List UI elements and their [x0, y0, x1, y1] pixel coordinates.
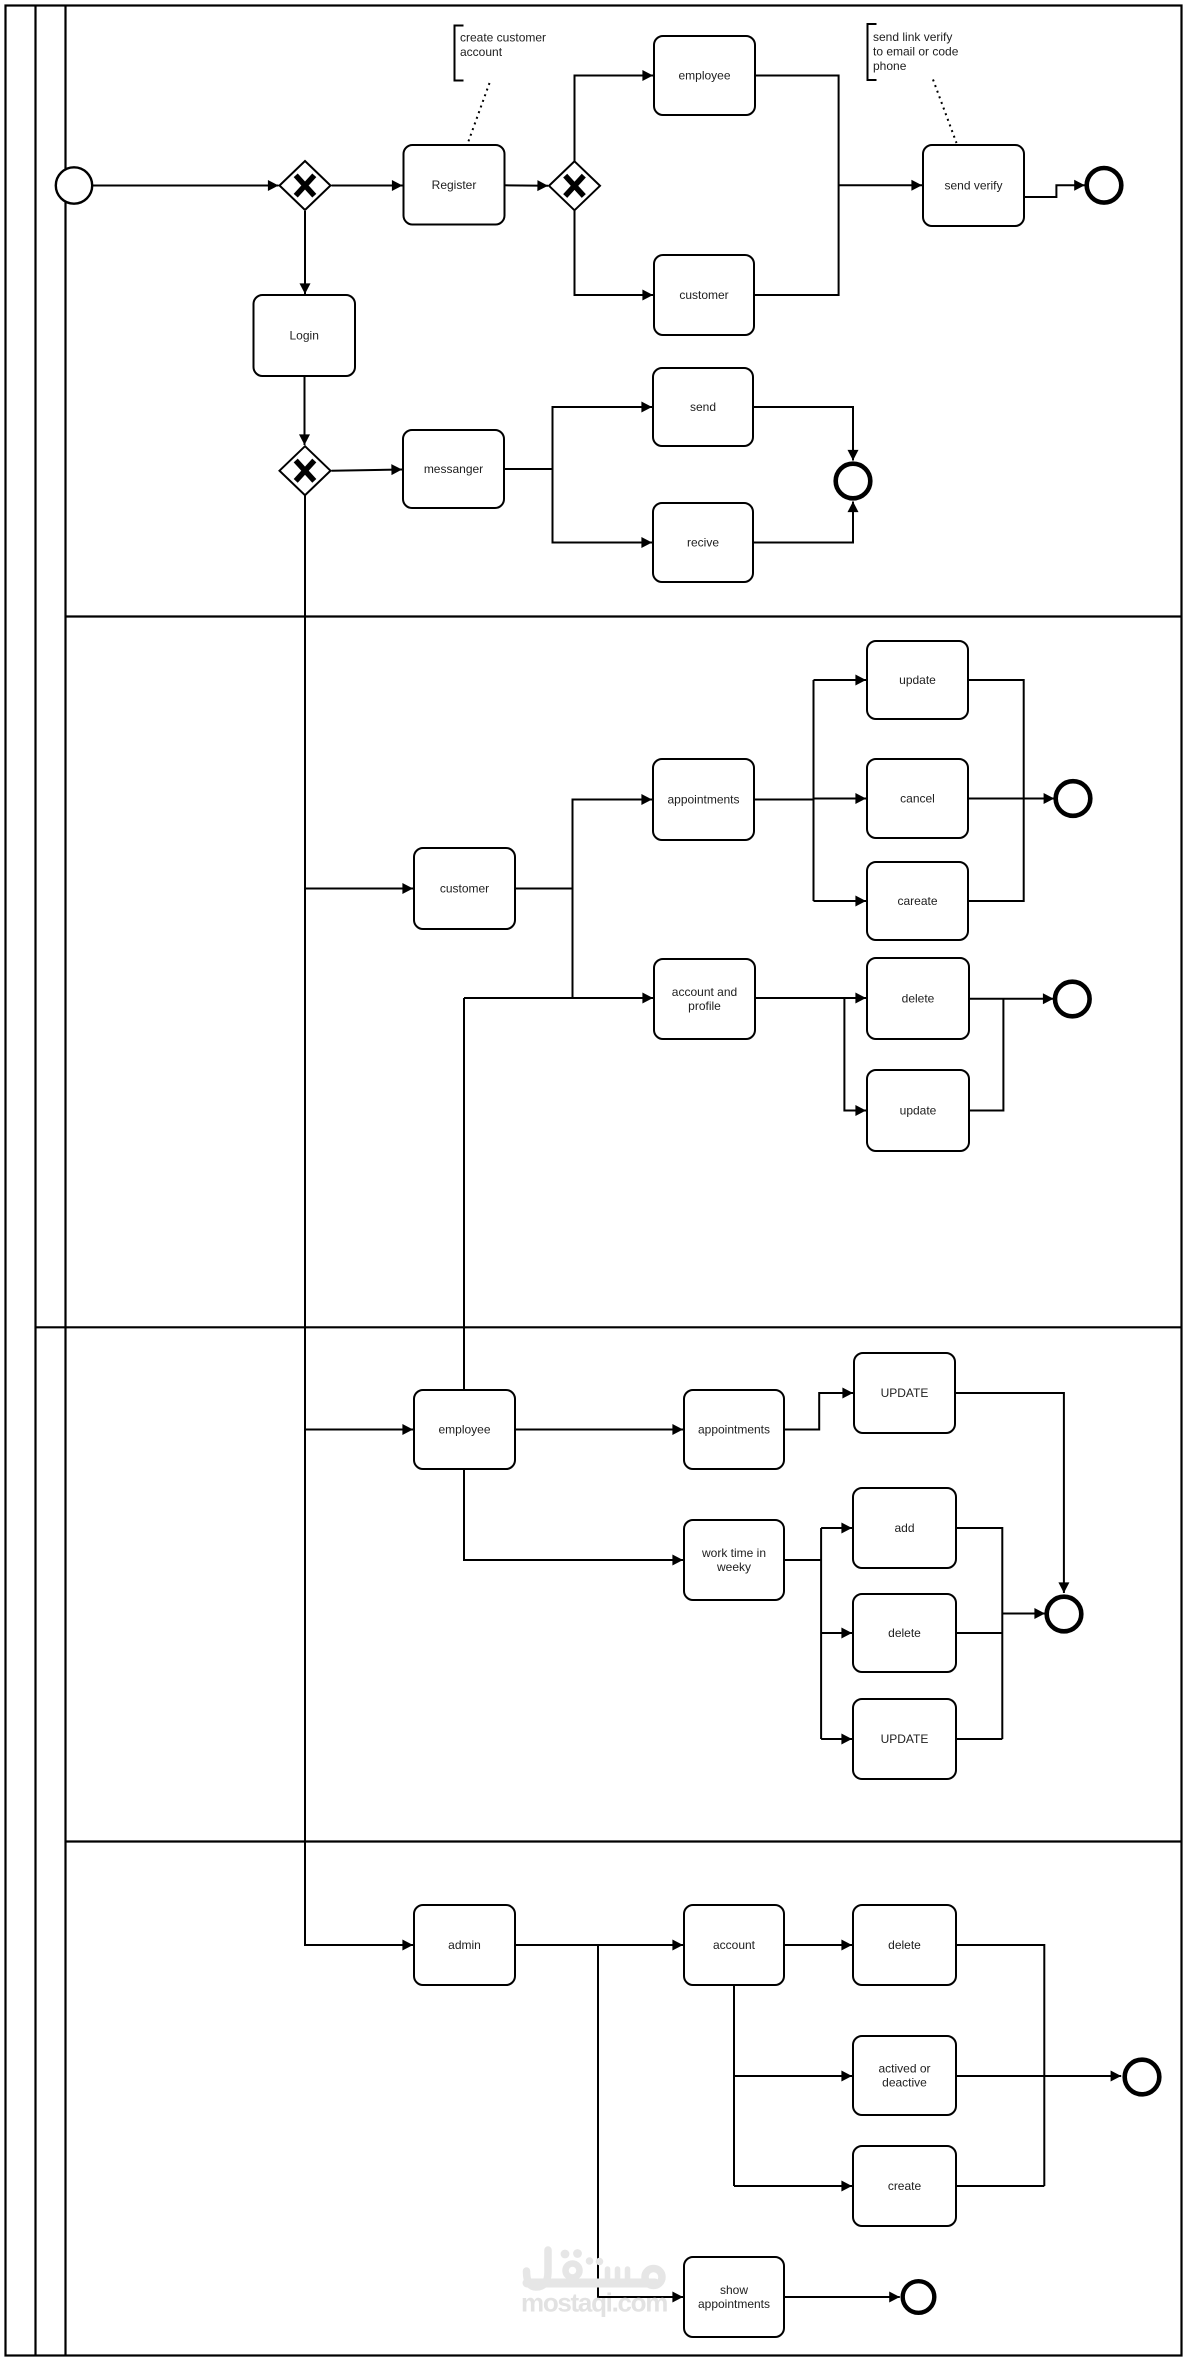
task appointments-cust — [653, 759, 754, 840]
svg-text:update: update — [899, 673, 936, 687]
svg-text:employee: employee — [678, 69, 730, 83]
task account — [684, 1905, 784, 1985]
svg-text:UPDATE: UPDATE — [881, 1386, 929, 1400]
wire account to delete-admin — [784, 1944, 852, 1946]
svg-text:recive: recive — [687, 536, 719, 550]
wire G2 to customer-register — [575, 210, 654, 295]
svg-text:Register: Register — [432, 178, 477, 192]
task account-profile — [654, 959, 755, 1039]
wire admin to account — [515, 1944, 683, 1946]
wire update-account merge — [969, 999, 1003, 1111]
svg-text:profile: profile — [688, 999, 721, 1013]
task Login — [254, 295, 356, 376]
wire to delete-time — [821, 1632, 852, 1634]
end event show end — [903, 2281, 935, 2313]
wire to update-appt — [814, 679, 867, 681]
wire send to messanger-end — [753, 407, 853, 461]
svg-text:careate: careate — [897, 894, 937, 908]
svg-text:weeky: weeky — [716, 1560, 751, 1574]
task recive — [653, 503, 753, 582]
svg-text:phone: phone — [873, 59, 907, 73]
annotation bracket: send link verify — [868, 24, 877, 80]
lane divider 2 — [36, 1326, 1182, 1328]
wire to cancel-appt — [814, 798, 867, 800]
svg-text:show: show — [720, 2283, 748, 2297]
task add-time — [853, 1488, 956, 1568]
pool title column line — [34, 6, 36, 2356]
task create-admin — [853, 2146, 956, 2226]
wire merge to employee-end — [1002, 1613, 1045, 1615]
svg-text:delete: delete — [902, 992, 935, 1006]
wire split down to account line — [572, 889, 574, 999]
lane title column line — [64, 6, 66, 2356]
wire feed down to employee — [463, 998, 465, 1389]
gateway G1 (exclusive X) — [280, 161, 331, 210]
wire update-appt merge — [968, 680, 1024, 799]
wire split vertical time — [820, 1528, 822, 1739]
wire customer split — [515, 888, 573, 890]
wire trunk to employee — [305, 1429, 413, 1431]
svg-text:cancel: cancel — [900, 792, 935, 806]
wire to create-admin — [734, 2185, 852, 2187]
svg-text:admin: admin — [448, 1938, 481, 1952]
wire to actived-deactive — [734, 2075, 852, 2077]
svg-text:deactive: deactive — [882, 2076, 927, 2090]
task work-time — [684, 1520, 784, 1600]
wire appointments-cust split — [754, 799, 814, 801]
task Register — [404, 145, 505, 225]
end event register end — [1087, 168, 1122, 203]
end event employee end — [1047, 1597, 1082, 1632]
lane divider 1 — [66, 615, 1182, 617]
task delete-admin — [853, 1905, 956, 1985]
wire employee to work-time — [464, 1469, 683, 1560]
svg-text:work time in: work time in — [701, 1546, 766, 1560]
wire admin branch to show — [598, 1945, 683, 2297]
wire to careate-appt — [814, 900, 867, 902]
task cancel-appt — [867, 759, 968, 838]
wire split to appointments-cust — [573, 800, 653, 889]
svg-text:account: account — [713, 1938, 756, 1952]
svg-text:send: send — [690, 400, 716, 414]
gateway G3 (exclusive X) — [280, 446, 331, 495]
wire trunk to customer — [305, 888, 413, 890]
svg-text:send link verify: send link verify — [873, 30, 952, 44]
wire split to send — [553, 407, 653, 469]
wire delete-account to account-end — [969, 998, 1054, 1000]
svg-text:UPDATE: UPDATE — [881, 1732, 929, 1746]
task delete-account — [867, 958, 969, 1039]
task employee-register — [654, 36, 755, 115]
end event admin end — [1125, 2060, 1160, 2095]
svg-text:delete: delete — [888, 1626, 921, 1640]
svg-text:send verify: send verify — [944, 179, 1002, 193]
wire delete-admin merge — [956, 1945, 1044, 2186]
wire to UPDATE-time — [821, 1738, 852, 1740]
wire UPDATE to employee-end — [955, 1393, 1064, 1593]
svg-text:appointments: appointments — [698, 2297, 770, 2311]
task messanger — [403, 430, 504, 508]
wire Login to G3 — [304, 376, 306, 445]
svg-text:customer: customer — [679, 288, 728, 302]
end event messanger end — [836, 464, 871, 499]
wire split vertical appts — [813, 680, 815, 901]
task update-appt — [867, 641, 968, 719]
lane divider 3 — [66, 1840, 1182, 1842]
svg-text:Login: Login — [290, 329, 319, 343]
task update-account — [867, 1070, 969, 1151]
wire account-profile to delete-account — [755, 997, 866, 999]
wire work-time split — [784, 1559, 821, 1561]
svg-text:customer: customer — [440, 882, 489, 896]
svg-text:create customer: create customer — [460, 31, 546, 45]
svg-text:to email or code: to email or code — [873, 45, 959, 59]
wire G3 trunk to admin — [305, 495, 413, 1945]
wire account feed line — [464, 997, 653, 999]
wire UPDATE-time merge — [956, 1738, 1002, 1740]
task customer-register — [654, 255, 754, 335]
wire create-admin merge — [956, 2185, 1044, 2187]
start event login/register start — [56, 167, 92, 203]
svg-text:mostaqi.com: mostaqi.com — [521, 2288, 667, 2318]
wire G2 to employee-register — [575, 76, 654, 162]
wire G3 to messanger — [332, 470, 403, 471]
svg-text:update: update — [900, 1104, 937, 1118]
wire appointments-emp to UPDATE — [784, 1393, 853, 1430]
wire add-time merge — [956, 1528, 1002, 1739]
task send — [653, 368, 753, 446]
wire Register to G2 — [505, 184, 549, 187]
task actived-deactive — [853, 2036, 956, 2115]
wire employee to appointments-emp — [515, 1429, 683, 1431]
annotation text: send link verify to email or code phone — [873, 30, 959, 73]
gateway G2 (exclusive X) — [549, 161, 600, 210]
wire delete-time merge — [956, 1632, 1002, 1634]
task appointments-emp — [684, 1390, 784, 1469]
svg-text:create: create — [888, 2179, 922, 2193]
wire messanger split — [504, 468, 553, 470]
svg-text:appointments: appointments — [698, 1423, 770, 1437]
annotation text: create customer account — [460, 31, 546, 60]
wire account down — [733, 1985, 735, 2186]
wire start to G1 — [92, 185, 278, 187]
task UPDATE-time — [853, 1699, 956, 1779]
wire split to recive — [553, 469, 653, 543]
annotation bracket: create customer account — [455, 26, 464, 81]
wire branch to update-account — [844, 998, 866, 1111]
task employee — [414, 1390, 515, 1469]
end event account end — [1055, 982, 1090, 1017]
task admin — [414, 1905, 515, 1985]
wire actived to admin-end — [956, 2075, 1121, 2077]
wire to add-time — [821, 1527, 852, 1529]
wire G1 to Login — [304, 211, 306, 294]
task send-verify — [923, 145, 1024, 226]
svg-text:delete: delete — [888, 1938, 921, 1952]
dotted link annotation2 to send-verify — [933, 80, 957, 144]
wire show to show-end — [784, 2296, 900, 2298]
task delete-time — [853, 1594, 956, 1672]
watermark mostaql logo (arabic) — [527, 2249, 663, 2287]
svg-text:appointments: appointments — [667, 793, 739, 807]
svg-text:add: add — [894, 1521, 914, 1535]
wire careate-appt merge — [968, 799, 1024, 902]
task UPDATE-appt-emp — [854, 1353, 955, 1433]
svg-text:account: account — [460, 45, 503, 59]
wire recive to messanger-end — [753, 502, 853, 543]
wire G1 to Register — [332, 185, 403, 187]
task customer — [414, 848, 515, 929]
task show-appointments — [684, 2257, 784, 2337]
svg-text:employee: employee — [438, 1423, 490, 1437]
end event appointments end — [1056, 781, 1091, 816]
svg-text:actived or: actived or — [878, 2062, 930, 2076]
svg-text:messanger: messanger — [424, 462, 483, 476]
wire cancel to appointments-end — [968, 798, 1054, 800]
wire merge to send-verify — [839, 184, 922, 186]
dotted link annotation1 to Register — [468, 83, 490, 144]
wire send-verify to end — [1024, 185, 1085, 197]
wire employee-register merge — [754, 76, 839, 296]
svg-text:account and: account and — [672, 985, 737, 999]
task careate-appt — [867, 862, 968, 940]
